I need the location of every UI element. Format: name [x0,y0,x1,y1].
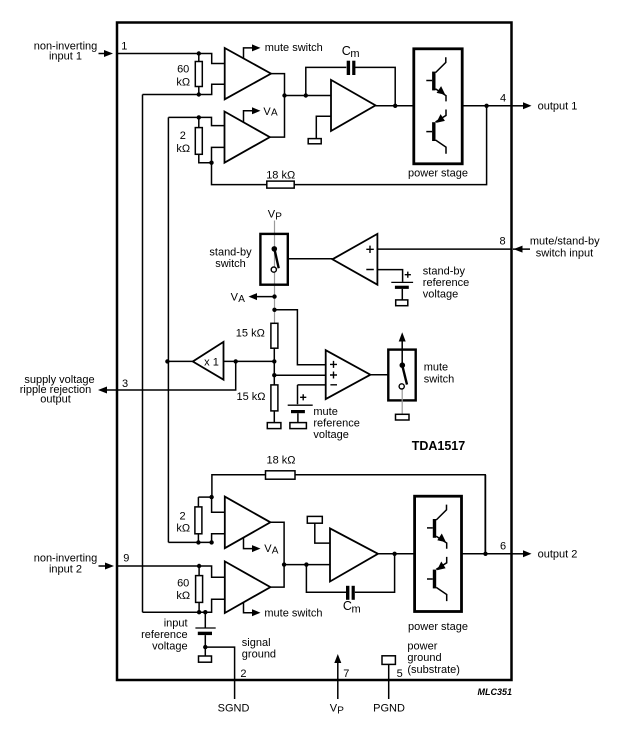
svg-text:x 1: x 1 [204,356,219,368]
svg-text:A: A [238,294,245,305]
svg-text:ground: ground [407,652,441,664]
svg-text:A: A [271,108,278,119]
svg-text:power: power [407,641,437,653]
svg-text:9: 9 [123,553,129,565]
svg-text:60: 60 [177,63,189,75]
svg-text:6: 6 [500,540,506,552]
svg-text:output 1: output 1 [538,100,578,112]
svg-text:1: 1 [121,41,127,53]
svg-text:power stage: power stage [408,621,468,633]
svg-text:2: 2 [180,130,186,142]
svg-text:SGND: SGND [218,703,250,715]
svg-text:m: m [350,48,359,60]
svg-text:8: 8 [500,235,506,247]
svg-text:mute: mute [313,406,337,418]
svg-text:18 kΩ: 18 kΩ [266,169,295,181]
svg-text:P: P [337,706,344,717]
svg-text:power stage: power stage [408,168,468,180]
svg-text:5: 5 [397,668,403,680]
svg-text:mute/stand-by: mute/stand-by [530,236,600,248]
svg-text:output 2: output 2 [538,548,578,560]
svg-text:4: 4 [500,93,506,105]
svg-text:2: 2 [180,510,186,522]
svg-text:(substrate): (substrate) [407,664,460,676]
svg-text:reference: reference [141,629,187,641]
svg-text:PGND: PGND [373,703,405,715]
svg-text:P: P [275,212,282,223]
svg-text:kΩ: kΩ [176,590,190,602]
svg-text:kΩ: kΩ [176,522,190,534]
svg-text:mute: mute [424,362,448,374]
svg-text:kΩ: kΩ [176,143,190,155]
svg-text:ground: ground [242,648,276,660]
svg-text:voltage: voltage [423,289,458,301]
svg-text:mute switch: mute switch [264,607,322,619]
svg-text:mute switch: mute switch [265,42,323,54]
svg-text:2: 2 [240,668,246,680]
svg-text:MLC351: MLC351 [477,687,512,697]
svg-text:7: 7 [343,668,349,680]
svg-text:TDA1517: TDA1517 [412,439,466,453]
svg-text:60: 60 [177,578,189,590]
svg-text:output: output [40,394,71,406]
svg-text:15 kΩ: 15 kΩ [236,391,265,403]
svg-text:switch: switch [424,373,455,385]
svg-text:stand-by: stand-by [423,265,466,277]
svg-text:signal: signal [242,637,271,649]
svg-text:A: A [272,546,279,557]
svg-text:input 1: input 1 [49,50,82,62]
svg-text:stand-by: stand-by [209,246,252,258]
svg-text:reference: reference [313,417,359,429]
svg-text:switch: switch [215,258,246,270]
svg-text:switch input: switch input [536,247,593,259]
svg-text:input 2: input 2 [49,564,82,576]
svg-text:m: m [352,603,361,615]
svg-text:kΩ: kΩ [176,76,190,88]
svg-text:3: 3 [122,378,128,390]
svg-text:voltage: voltage [313,429,348,441]
svg-text:input: input [164,617,188,629]
svg-text:reference: reference [423,277,469,289]
svg-text:18 kΩ: 18 kΩ [266,454,295,466]
svg-text:voltage: voltage [152,641,187,653]
svg-text:15 kΩ: 15 kΩ [236,327,265,339]
